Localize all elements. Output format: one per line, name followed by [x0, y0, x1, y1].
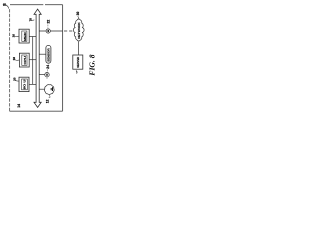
wire cloud to box R1 — [77, 42, 79, 55]
svg-text:22: 22 — [47, 20, 51, 24]
outer device box: right edge — [62, 5, 64, 112]
label 30 (above cloud) — [76, 12, 80, 19]
circle C2 glyph — [46, 74, 47, 76]
svg-text:I/O U: I/O U — [23, 80, 27, 90]
blob L1 tail — [48, 95, 50, 97]
svg-text:CPU: CPU — [23, 56, 27, 65]
svg-text:70: 70 — [29, 18, 33, 22]
label 16 (left of B1) — [12, 34, 19, 38]
outer device box: top edge — [10, 4, 63, 6]
wire B2 to bus — [29, 59, 36, 61]
bus arrow (vertical double-headed hollow arrow) — [34, 9, 41, 107]
outer device box: bottom edge — [10, 110, 63, 112]
label 24 (above C2) — [46, 65, 50, 79]
box R1 (remote unit) — [73, 55, 83, 69]
svg-text:FIG. 8: FIG. 8 — [88, 54, 97, 75]
box B3 (bottom-left component) — [19, 77, 29, 91]
outer device box: left edge (dashed) — [9, 9, 11, 111]
bus tie line (vertical wire linking box wires) — [32, 37, 34, 85]
wire B1 to bus — [29, 36, 36, 38]
svg-text:24: 24 — [46, 65, 50, 69]
svg-text:14: 14 — [17, 104, 21, 108]
circle C1 glyph — [48, 30, 49, 32]
label 18 (left of B2) — [12, 57, 19, 61]
svg-text:16: 16 — [12, 34, 16, 38]
label 20 (left of B3) — [12, 77, 19, 81]
wire bus to blob L1 — [39, 88, 44, 90]
blob L1 (small cloud component) — [44, 85, 54, 95]
svg-text:30: 30 — [76, 12, 80, 16]
dashed wire box edge to cloud — [64, 30, 75, 32]
box B2 (middle-left component) — [19, 53, 29, 67]
svg-text:MEM: MEM — [23, 31, 27, 40]
svg-text:NETWORK: NETWORK — [77, 21, 81, 39]
circle C1 (interface) — [46, 29, 50, 33]
network cloud N1 — [73, 19, 84, 41]
box B1 (top-left component) — [19, 29, 29, 43]
label 8 (figure pointer, top-left) — [2, 3, 9, 9]
svg-text:SERVER: SERVER — [76, 57, 80, 68]
wire bus to circle C1 and box edge — [39, 30, 62, 32]
wire bus to circle C2 — [39, 74, 45, 76]
label 70 (bus arrow label + leader) — [29, 18, 35, 22]
label 12 (near bus arrow bottom) — [45, 97, 50, 103]
capsule K1 (rounded module) — [46, 45, 51, 63]
svg-text:12: 12 — [45, 99, 49, 103]
wire bus to capsule K1 — [39, 53, 46, 55]
svg-text:SENSOR: SENSOR — [47, 48, 51, 62]
circle C2 (interface) — [45, 73, 49, 77]
blob L1 glyph — [51, 87, 52, 91]
wire B3 to bus — [29, 83, 36, 85]
label 32 (below box R1, squiggle) — [75, 71, 78, 74]
label 22 (above C1) — [47, 20, 51, 28]
